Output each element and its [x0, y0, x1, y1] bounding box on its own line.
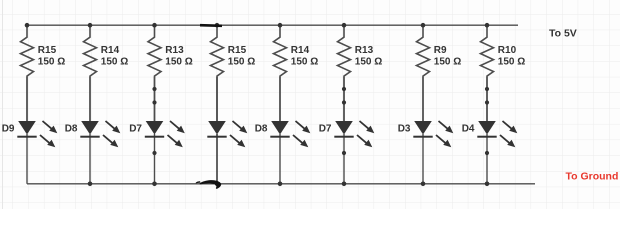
LED D8 (branch 2) [65, 121, 121, 147]
svg-text:To Ground: To Ground [566, 171, 619, 183]
node: branch 8 intermediate connection dots [485, 87, 489, 155]
LED D8 (branch 5) [255, 121, 311, 147]
svg-text:To 5V: To 5V [549, 28, 577, 40]
resistor R14 (branch 2) [84, 25, 129, 121]
svg-text:R10: R10 [498, 45, 517, 56]
svg-text:R13: R13 [165, 45, 184, 56]
LED D7 (branch 6) [319, 121, 375, 147]
LED D4 (branch 8) [462, 121, 518, 147]
node: branch 6 intermediate connection dots [342, 87, 346, 155]
wire: branch 5 vertical [279, 77, 281, 184]
wire: bottom ground rail [27, 183, 535, 185]
wire: branch 4 vertical [216, 77, 218, 184]
svg-text:R15: R15 [38, 45, 57, 56]
wire: hand-drawn highlight blob on bottom rail [196, 180, 221, 189]
node: bottom rail junctions [88, 182, 490, 187]
svg-text:D9: D9 [2, 124, 15, 135]
svg-text:D3: D3 [398, 124, 411, 135]
resistor R15 (branch 1) [21, 25, 66, 121]
svg-text:R13: R13 [355, 45, 374, 56]
resistor R14 (branch 5) [274, 25, 319, 121]
wire: top +5V rail [27, 24, 518, 26]
svg-text:R14: R14 [291, 45, 310, 56]
wire: branch 3 vertical [154, 77, 156, 184]
svg-text:150 Ω: 150 Ω [434, 57, 461, 68]
resistor R15 (branch 4) [211, 25, 256, 121]
svg-text:150 Ω: 150 Ω [228, 57, 255, 68]
svg-text:150 Ω: 150 Ω [38, 57, 65, 68]
wire: branch 8 vertical [486, 77, 488, 184]
svg-text:D4: D4 [462, 124, 475, 135]
resistor R9 (branch 7) [417, 25, 462, 121]
svg-text:D8: D8 [65, 124, 78, 135]
svg-text:D7: D7 [129, 124, 142, 135]
svg-text:R15: R15 [228, 45, 247, 56]
LED D7 (branch 3) [129, 121, 185, 147]
svg-text:150 Ω: 150 Ω [355, 57, 382, 68]
node: branch 3 intermediate connection dots [152, 87, 156, 155]
resistor R13 (branch 3) [148, 25, 193, 121]
LED D3 (branch 7) [398, 121, 454, 147]
svg-text:D7: D7 [319, 124, 332, 135]
wire: branch 2 vertical [89, 77, 91, 184]
node: top rail junctions [25, 23, 490, 28]
svg-text:150 Ω: 150 Ω [101, 57, 128, 68]
svg-text:R9: R9 [434, 45, 447, 56]
svg-text:R14: R14 [101, 45, 120, 56]
svg-text:150 Ω: 150 Ω [165, 57, 192, 68]
LED unlabeled (branch 4) [207, 121, 247, 147]
svg-text:D8: D8 [255, 124, 268, 135]
svg-text:150 Ω: 150 Ω [498, 57, 525, 68]
wire: branch 1 vertical [26, 77, 28, 184]
wire: branch 6 vertical [343, 77, 345, 184]
wire: hand-drawn highlight mark on top rail [200, 24, 222, 27]
resistor R10 (branch 8) [481, 25, 526, 121]
svg-text:150 Ω: 150 Ω [291, 57, 318, 68]
resistor R13 (branch 6) [338, 25, 383, 121]
wire: branch 7 vertical [422, 77, 424, 184]
LED D9 (branch 1) [2, 121, 58, 147]
